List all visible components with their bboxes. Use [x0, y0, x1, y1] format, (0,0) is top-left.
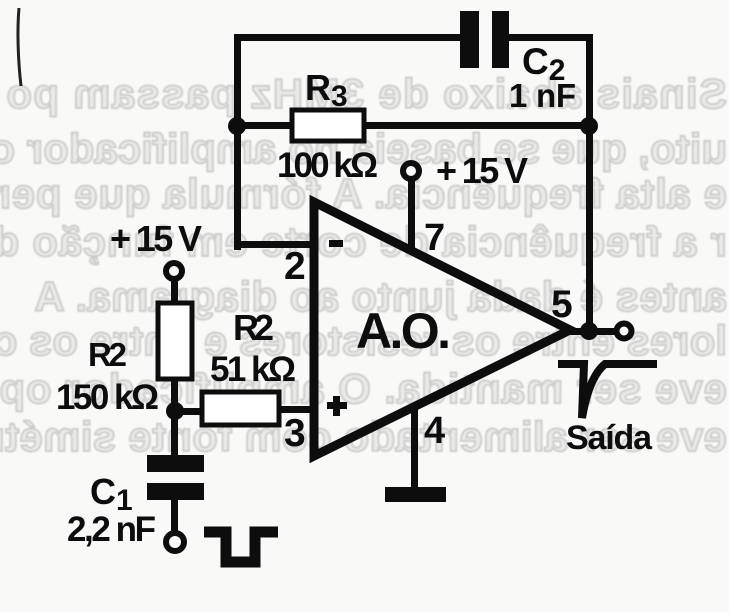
svg-text:2,2 nF: 2,2 nF — [67, 510, 156, 549]
svg-text:+ 15 V: + 15 V — [110, 218, 202, 259]
resistor R2 vertical — [158, 303, 192, 379]
terminal +15V pin7 circle — [403, 163, 419, 179]
svg-text:+ 15 V: + 15 V — [436, 150, 528, 191]
wire R2 to node — [171, 379, 178, 403]
svg-text:R3: R3 — [305, 67, 348, 113]
terminal input open circle — [166, 533, 184, 551]
terminal +15V left circle — [166, 263, 182, 279]
node right R3 junction — [580, 117, 598, 135]
wire pin 7 — [408, 181, 415, 249]
svg-text:7: 7 — [424, 217, 445, 259]
wire top feedback left segment — [234, 34, 462, 41]
wire node to C1 — [171, 411, 178, 455]
resistor R3 — [292, 110, 364, 141]
wire pin 2 horizontal — [234, 241, 314, 248]
wire pin 4 — [411, 409, 418, 489]
wire left vertical (top corner to pin2 bend) — [234, 34, 241, 250]
svg-text:3: 3 — [284, 412, 306, 455]
wire right vertical to output — [586, 34, 593, 331]
ground — [385, 487, 446, 502]
capacitor C2 — [460, 11, 509, 68]
minus input mark — [329, 240, 343, 247]
wire R2h to pin3 — [279, 406, 314, 413]
node input junction — [166, 402, 184, 420]
output waveform spike — [558, 364, 657, 418]
wire output — [566, 328, 616, 335]
input pulse symbol — [204, 532, 278, 562]
terminal output open circle — [617, 324, 632, 339]
svg-text:2: 2 — [284, 245, 306, 288]
node left R3 junction — [228, 117, 246, 135]
node output junction — [580, 322, 598, 340]
plus input mark — [327, 396, 347, 416]
op-amp U1 triangle — [314, 202, 570, 456]
wire +15V to R2 — [171, 280, 178, 304]
resistor R2 horizontal 51k — [202, 392, 279, 425]
svg-text:51 kΩ: 51 kΩ — [210, 350, 296, 389]
svg-text:A.O.: A.O. — [356, 303, 451, 359]
svg-text:5: 5 — [551, 283, 573, 326]
wire node to R2h — [175, 408, 202, 415]
capacitor C1 — [147, 455, 204, 500]
wire top feedback right segment — [506, 34, 592, 41]
svg-text:1 nF: 1 nF — [509, 77, 576, 114]
svg-text:R2: R2 — [88, 336, 127, 373]
svg-text:150 kΩ: 150 kΩ — [56, 378, 159, 417]
svg-text:R2: R2 — [233, 307, 274, 348]
svg-text:4: 4 — [424, 410, 445, 452]
scan artifact line top-left — [18, 8, 21, 86]
svg-text:100 kΩ: 100 kΩ — [277, 146, 378, 185]
wire C1 to input terminal — [171, 500, 178, 533]
svg-text:Saída: Saída — [566, 419, 653, 457]
wire R3 row — [237, 122, 589, 129]
